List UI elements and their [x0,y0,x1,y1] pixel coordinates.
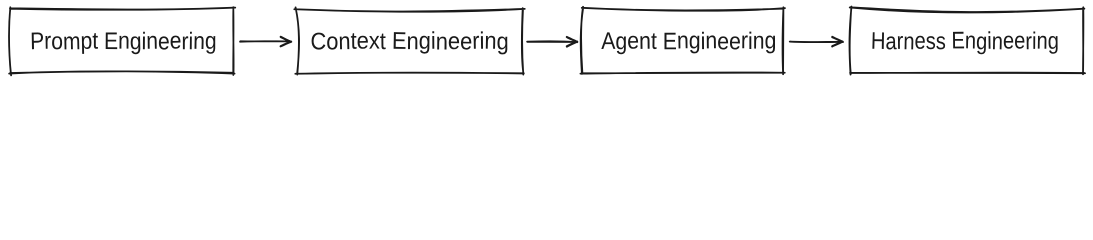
label Prompt Engineering: "Prompt Engineering" [32,32,216,54]
box Prompt Engineering [9,7,235,75]
arrow 2 [527,37,577,47]
arrow 3 [790,37,843,47]
label Agent Engineering: "Agent Engineering" [601,32,775,55]
box Harness Engineering [849,7,1085,75]
label Harness Engineering: "Harness Engineering" [872,31,1057,54]
box Context Engineering [294,7,525,74]
box Agent Engineering [580,7,785,75]
arrow 1 [240,37,291,47]
label Context Engineering: "Context Engineering" [312,31,508,54]
